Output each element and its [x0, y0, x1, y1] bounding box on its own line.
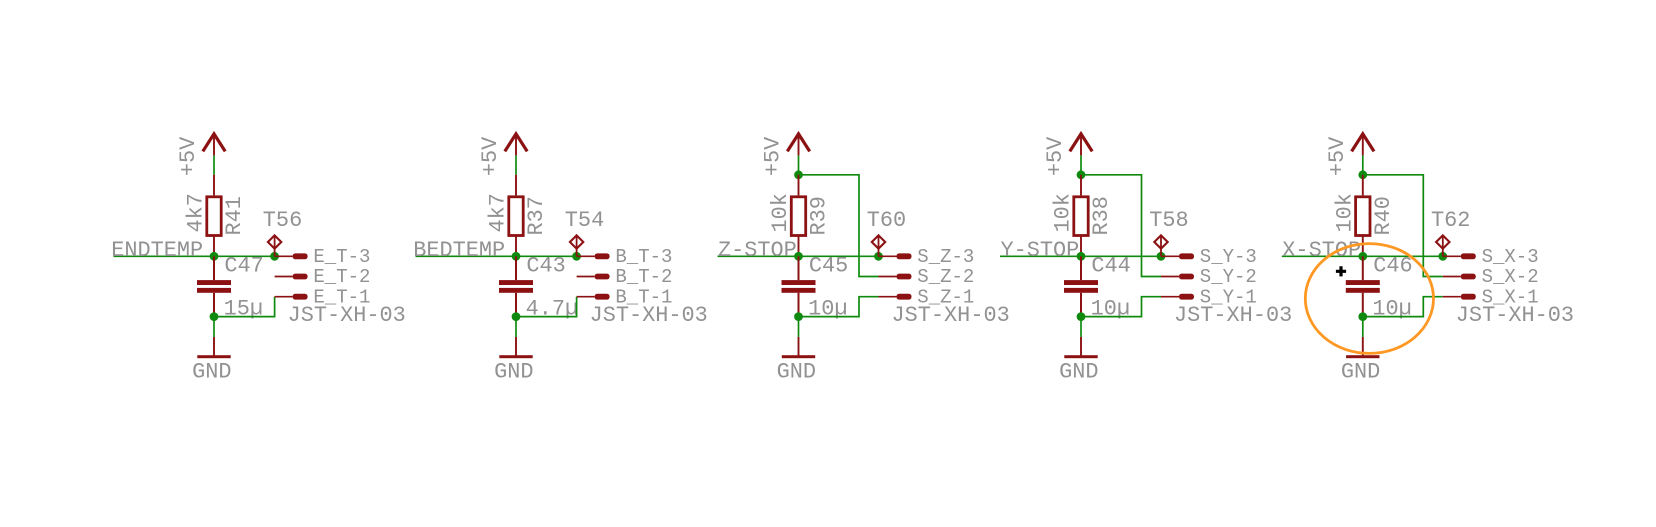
junction node at +5V branch — [1358, 170, 1367, 179]
svg-text:T62: T62 — [1431, 208, 1470, 233]
junction node cap/gnd — [1077, 312, 1086, 321]
capacitor C45 10µ — [782, 254, 849, 322]
svg-text:E_T-3: E_T-3 — [313, 246, 370, 268]
svg-text:C43: C43 — [526, 254, 565, 279]
wire gnd net — [1362, 317, 1364, 337]
svg-text:JST-XH-03: JST-XH-03 — [590, 303, 708, 328]
wire +5V net — [515, 155, 517, 174]
wire +5V net — [1080, 155, 1082, 174]
pin E_T-2 — [275, 266, 371, 288]
svg-text:E_T-2: E_T-2 — [313, 266, 370, 288]
svg-text:S_Z-2: S_Z-2 — [917, 266, 974, 288]
wire net BEDTEMP — [416, 255, 577, 257]
junction node resistor/cap — [1358, 252, 1367, 261]
wire pin1 to gnd node — [799, 297, 879, 317]
svg-text:C47: C47 — [224, 254, 263, 279]
svg-text:R37: R37 — [524, 196, 549, 235]
capacitor C47 15µ — [197, 254, 264, 322]
svg-text:GND: GND — [192, 360, 231, 385]
svg-text:B_T-3: B_T-3 — [615, 246, 672, 268]
wire net Z-STOP — [718, 255, 879, 257]
svg-text:+5V: +5V — [478, 136, 503, 176]
junction node resistor/cap — [794, 252, 803, 261]
junction node resistor/cap — [210, 252, 219, 261]
svg-text:GND: GND — [1341, 360, 1380, 385]
svg-text:10k: 10k — [768, 193, 793, 232]
svg-text:+5V: +5V — [176, 136, 201, 176]
svg-text:15µ: 15µ — [224, 296, 263, 321]
resistor R39 10k — [768, 175, 832, 256]
+5V supply symbol — [176, 134, 225, 176]
junction node at testpoint — [1438, 252, 1447, 261]
testpoint T54 — [565, 208, 604, 256]
svg-text:T54: T54 — [565, 208, 604, 233]
svg-text:T60: T60 — [867, 208, 906, 233]
resistor R37 4k7 — [486, 175, 550, 256]
junction node cap/gnd — [794, 312, 803, 321]
svg-text:S_X-3: S_X-3 — [1482, 246, 1539, 268]
+5V supply symbol — [478, 134, 527, 176]
resistor R38 10k — [1051, 175, 1115, 256]
svg-text:R39: R39 — [807, 196, 832, 235]
svg-text:GND: GND — [494, 360, 533, 385]
svg-text:Z-STOP: Z-STOP — [718, 238, 797, 263]
wire net Y-STOP — [1000, 255, 1161, 257]
pin S_Y-3 — [1161, 246, 1257, 268]
svg-text:C45: C45 — [809, 254, 848, 279]
svg-text:10µ: 10µ — [808, 296, 847, 321]
svg-text:10µ: 10µ — [1372, 296, 1411, 321]
svg-text:S_Y-2: S_Y-2 — [1200, 266, 1257, 288]
wire net ENDTEMP — [114, 255, 275, 257]
pin B_T-1 — [577, 286, 673, 308]
wire +5V branch to pin 2 — [1363, 175, 1443, 277]
svg-text:JST-XH-03: JST-XH-03 — [288, 303, 406, 328]
pin S_X-3 — [1443, 246, 1539, 268]
wire gnd net — [798, 317, 800, 337]
junction node at testpoint — [1157, 252, 1166, 261]
pin S_Z-2 — [879, 266, 975, 288]
wire gnd net — [213, 317, 215, 337]
junction node at testpoint — [874, 252, 883, 261]
svg-text:B_T-2: B_T-2 — [615, 266, 672, 288]
wire pin1 to gnd node — [1363, 297, 1443, 317]
junction node resistor/cap — [1077, 252, 1086, 261]
wire +5V branch to pin 2 — [799, 175, 879, 277]
svg-text:S_Z-3: S_Z-3 — [917, 246, 974, 268]
capacitor C46 10µ — [1346, 254, 1413, 322]
wire +5V branch to pin 2 — [1081, 175, 1161, 277]
svg-text:+5V: +5V — [1043, 136, 1068, 176]
ground GND — [192, 337, 231, 385]
junction node cap/gnd — [1358, 312, 1367, 321]
svg-text:GND: GND — [777, 360, 816, 385]
svg-text:S_Y-3: S_Y-3 — [1200, 246, 1257, 268]
ground GND — [1341, 337, 1380, 385]
wire gnd net — [515, 317, 517, 337]
svg-text:JST-XH-03: JST-XH-03 — [1174, 303, 1292, 328]
pin S_Z-3 — [879, 246, 975, 268]
svg-text:+5V: +5V — [1325, 136, 1350, 176]
svg-text:R41: R41 — [222, 196, 247, 235]
svg-text:Y-STOP: Y-STOP — [1001, 238, 1080, 263]
wire net X-STOP — [1282, 255, 1443, 257]
pin B_T-3 — [577, 246, 673, 268]
pin S_Z-1 — [879, 286, 975, 308]
svg-text:JST-XH-03: JST-XH-03 — [892, 303, 1010, 328]
svg-text:ENDTEMP: ENDTEMP — [111, 238, 203, 263]
pin B_T-2 — [577, 266, 673, 288]
svg-text:X-STOP: X-STOP — [1282, 238, 1361, 263]
junction node cap/gnd — [512, 312, 521, 321]
svg-text:GND: GND — [1059, 360, 1098, 385]
svg-text:4.7µ: 4.7µ — [526, 296, 579, 321]
pin E_T-1 — [275, 286, 371, 308]
wire pin1 to gnd node — [516, 297, 577, 317]
wire +5V net — [1362, 155, 1364, 174]
junction node at testpoint — [572, 252, 581, 261]
svg-text:BEDTEMP: BEDTEMP — [413, 238, 505, 263]
ground GND — [777, 337, 816, 385]
svg-text:T58: T58 — [1149, 208, 1188, 233]
junction node cap/gnd — [210, 312, 219, 321]
resistor R40 10k — [1333, 175, 1397, 256]
svg-text:C44: C44 — [1091, 254, 1130, 279]
svg-text:R38: R38 — [1089, 196, 1114, 235]
pin S_X-1 — [1443, 286, 1539, 308]
junction node at testpoint — [270, 252, 279, 261]
testpoint T62 — [1431, 208, 1470, 256]
svg-text:10k: 10k — [1333, 193, 1358, 232]
pin S_Y-2 — [1161, 266, 1257, 288]
svg-text:R40: R40 — [1371, 196, 1396, 235]
svg-text:S_X-2: S_X-2 — [1482, 266, 1539, 288]
wire pin1 to gnd node — [1081, 297, 1161, 317]
pin S_X-2 — [1443, 266, 1539, 288]
svg-text:+5V: +5V — [761, 136, 786, 176]
+5V supply symbol — [1043, 134, 1092, 176]
ground GND — [1059, 337, 1098, 385]
highlight ellipse annotation — [1305, 244, 1433, 354]
svg-text:4k7: 4k7 — [486, 193, 511, 232]
testpoint T58 — [1149, 208, 1188, 256]
polarity mark + of C46 — [1336, 266, 1346, 276]
pin E_T-3 — [275, 246, 371, 268]
pin S_Y-1 — [1161, 286, 1257, 308]
junction node at +5V branch — [794, 170, 803, 179]
+5V supply symbol — [1325, 134, 1374, 176]
testpoint T56 — [263, 208, 302, 256]
wire gnd net — [1080, 317, 1082, 337]
svg-text:C46: C46 — [1373, 254, 1412, 279]
wire pin1 to gnd node — [214, 297, 275, 317]
svg-text:T56: T56 — [263, 208, 302, 233]
capacitor C44 10µ — [1064, 254, 1131, 322]
svg-text:10k: 10k — [1051, 193, 1076, 232]
resistor R41 4k7 — [184, 175, 248, 256]
wire +5V net — [798, 155, 800, 174]
ground GND — [494, 337, 533, 385]
svg-text:JST-XH-03: JST-XH-03 — [1456, 303, 1574, 328]
testpoint T60 — [867, 208, 906, 256]
svg-text:10µ: 10µ — [1091, 296, 1130, 321]
capacitor C43 4.7µ — [499, 254, 578, 322]
+5V supply symbol — [761, 134, 810, 176]
wire +5V net — [213, 155, 215, 174]
svg-text:4k7: 4k7 — [184, 193, 209, 232]
junction node resistor/cap — [512, 252, 521, 261]
junction node at +5V branch — [1077, 170, 1086, 179]
